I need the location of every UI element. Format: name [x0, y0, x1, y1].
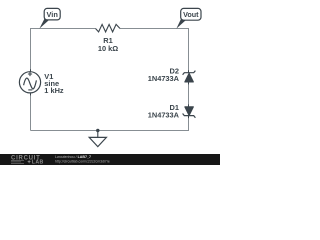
- D1 labels: [148, 103, 180, 119]
- ground: [89, 129, 106, 147]
- zener diode D1: [183, 104, 196, 118]
- zener diode D2: [183, 70, 196, 84]
- D2 labels: [148, 67, 180, 83]
- V1 labels: [44, 72, 64, 95]
- wire top-left horizontal (node Vin): [31, 28, 96, 30]
- svg-text:1N4733A: 1N4733A: [148, 110, 180, 119]
- node flag Vout: [176, 8, 201, 28]
- watermark bar: [0, 154, 220, 165]
- svg-text:Vin: Vin: [47, 10, 59, 19]
- svg-text:✦LAB: ✦LAB: [27, 160, 44, 165]
- voltage source V1: [19, 69, 40, 95]
- wire between D2 and D1: [188, 82, 190, 107]
- wire left vertical: [30, 28, 32, 72]
- watermark text: [55, 155, 110, 163]
- CircuitLab logo: [11, 155, 44, 165]
- wire from V1 bottom to ground rail: [30, 93, 32, 131]
- R1 value label: [98, 36, 118, 53]
- svg-text:10 kΩ: 10 kΩ: [98, 44, 118, 53]
- svg-text:Vout: Vout: [183, 10, 199, 19]
- svg-text:1 kHz: 1 kHz: [44, 86, 64, 95]
- svg-text:1N4733A: 1N4733A: [148, 74, 180, 83]
- wire bottom rail: [31, 130, 190, 132]
- svg-text:http://circuitlab.com/c22c2cm3: http://circuitlab.com/c22c2cm3di7re: [55, 159, 110, 163]
- wire D1 to bottom rail: [188, 116, 190, 131]
- node flag Vin: [39, 8, 60, 28]
- resistor R1: [96, 24, 121, 32]
- wire top-right horizontal (node Vout): [120, 28, 189, 30]
- wire right vertical Vout to D2: [188, 28, 190, 73]
